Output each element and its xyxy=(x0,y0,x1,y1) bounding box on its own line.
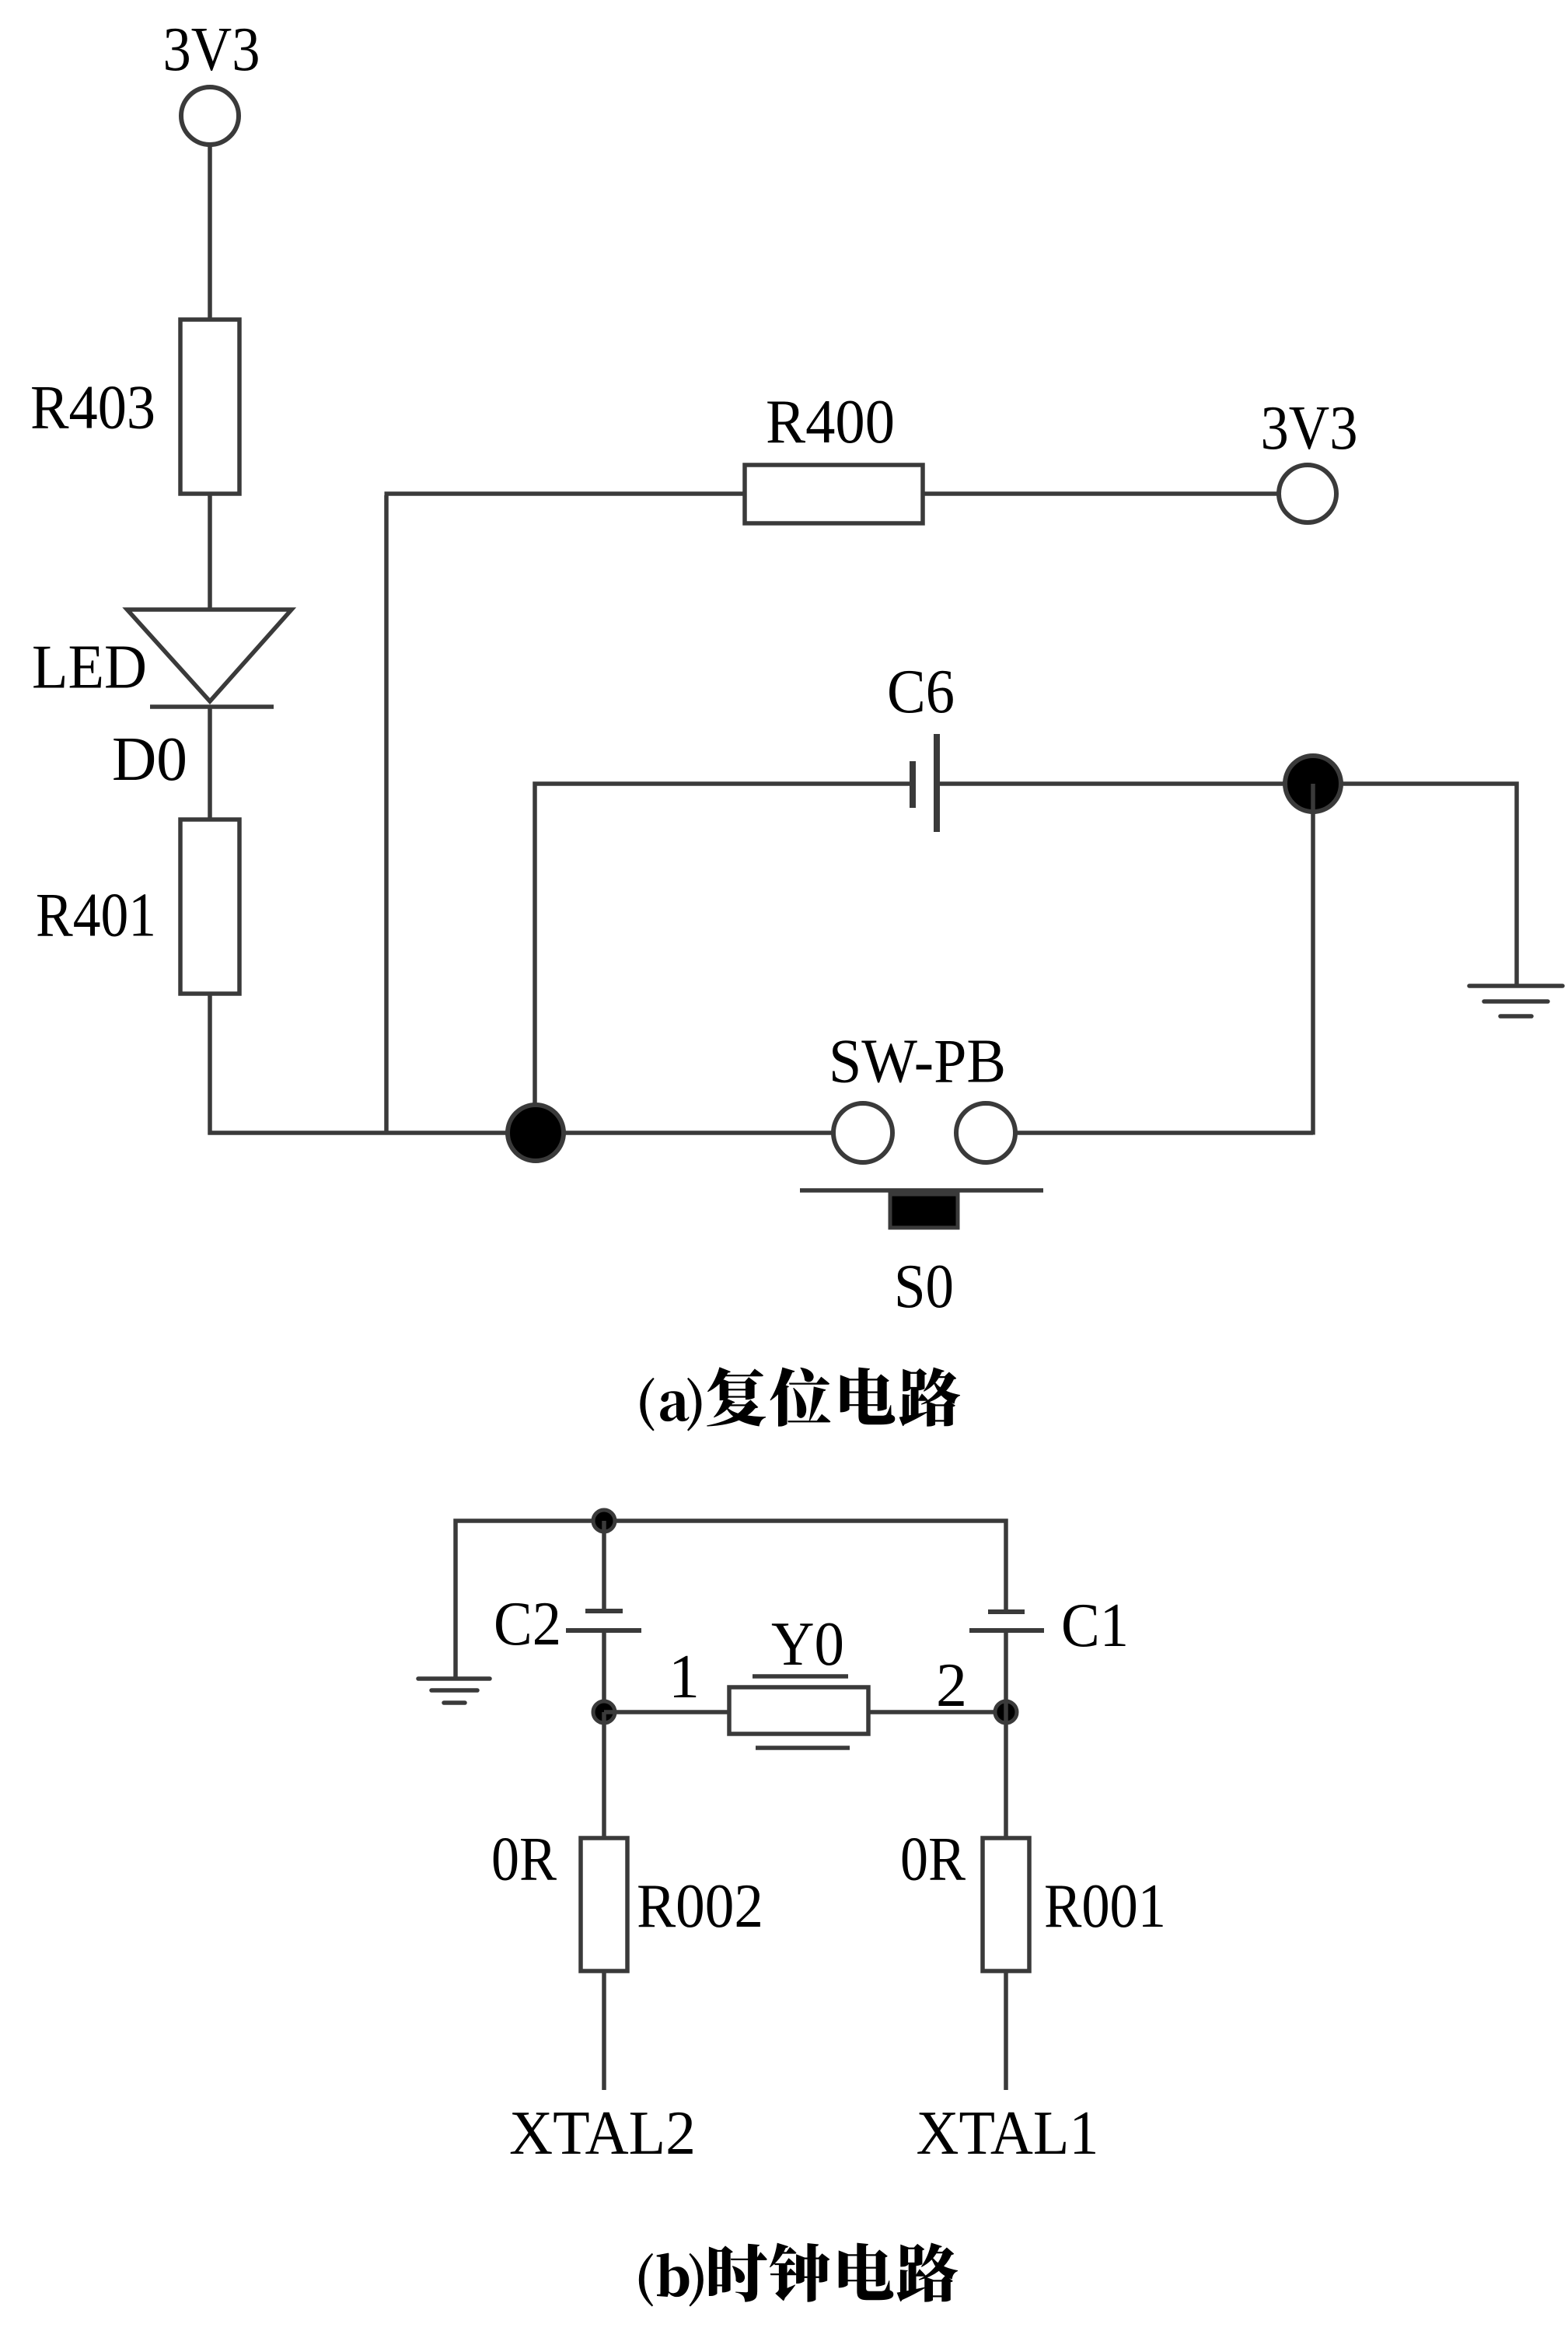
wire R002 to XTAL2 xyxy=(602,1971,606,2090)
caption (a) glyph ')' xyxy=(687,1378,701,1431)
caption (b) glyph 'b' xyxy=(657,2253,690,2297)
wire 3V3 to R403 xyxy=(208,145,212,320)
ground symbol (b) bar3 xyxy=(444,1700,465,1705)
svg-text:C6: C6 xyxy=(887,658,955,726)
svg-text:R401: R401 xyxy=(36,882,156,950)
svg-text:3V3: 3V3 xyxy=(1261,394,1358,463)
caption (b) glyph '钟' xyxy=(770,2243,829,2302)
caption (b) glyph '路' xyxy=(897,2243,958,2302)
svg-text:3V3: 3V3 xyxy=(163,16,260,84)
ground symbol (a) bar2 xyxy=(1484,999,1548,1004)
capacitor C1 bottom plate xyxy=(969,1628,1044,1633)
svg-text:1: 1 xyxy=(669,1643,700,1711)
svg-text:XTAL1: XTAL1 xyxy=(917,2099,1099,2168)
svg-text:D0: D0 xyxy=(112,725,187,794)
crystal Y0 bottom electrode line xyxy=(756,1746,850,1750)
svg-text:2: 2 xyxy=(936,1651,967,1720)
caption (a) glyph '位' xyxy=(770,1368,830,1427)
caption (a) glyph '路' xyxy=(899,1368,960,1427)
caption (b) glyph ')' xyxy=(689,2253,703,2307)
power terminal 3V3 right circle xyxy=(1279,465,1336,522)
wire Y0 to node 2 xyxy=(868,1710,1006,1714)
junction dot node 2 xyxy=(995,1701,1017,1723)
caption (b) glyph '电' xyxy=(839,2243,894,2301)
junction dot top rail xyxy=(593,1510,615,1532)
junction dot left on bottom rail xyxy=(508,1105,564,1161)
ground symbol (b) bar1 xyxy=(418,1676,490,1681)
svg-text:S0: S0 xyxy=(894,1253,954,1321)
junction dot node 1 xyxy=(593,1701,615,1723)
svg-text:R400: R400 xyxy=(766,388,895,456)
switch S0 right contact circle xyxy=(956,1103,1015,1162)
caption (a) glyph '(' xyxy=(640,1378,654,1431)
caption (a) glyph '复' xyxy=(707,1367,766,1426)
wire C2 to node 1 xyxy=(602,1633,606,1712)
svg-text:R002: R002 xyxy=(637,1872,763,1941)
power terminal 3V3 top-left circle xyxy=(181,87,239,145)
wire junction down to switch right xyxy=(1015,784,1313,1135)
svg-text:SW-PB: SW-PB xyxy=(829,1028,1006,1096)
caption (b) glyph '(' xyxy=(639,2253,653,2307)
caption (a) glyph '电' xyxy=(840,1368,896,1425)
svg-text:C1: C1 xyxy=(1061,1592,1129,1660)
wire R400 left horizontal xyxy=(385,491,746,496)
svg-text:R001: R001 xyxy=(1044,1872,1166,1941)
capacitor C2 top plate xyxy=(585,1609,623,1613)
wire R403 to LED xyxy=(208,494,212,610)
ground symbol (a) bar3 xyxy=(1500,1014,1531,1019)
wire LED to R401 xyxy=(208,707,212,820)
caption (a) glyph 'a' xyxy=(660,1391,690,1421)
LED D0 triangle xyxy=(127,610,292,701)
resistor R400 body xyxy=(745,465,923,523)
LED D0 cathode bar xyxy=(150,704,274,709)
switch S0 left contact circle xyxy=(833,1103,892,1162)
resistor R403 body xyxy=(180,320,239,494)
svg-text:C2: C2 xyxy=(494,1590,561,1658)
crystal Y0 body xyxy=(729,1687,868,1734)
svg-text:0R: 0R xyxy=(900,1826,966,1894)
svg-text:Y0: Y0 xyxy=(771,1610,844,1679)
ground symbol (b) bar2 xyxy=(431,1688,477,1693)
switch S0 actuator bar xyxy=(800,1188,1043,1193)
wire node 1 to Y0 xyxy=(604,1710,729,1714)
wire C6 left with corner down to junction xyxy=(535,784,910,1133)
wire R001 to XTAL1 xyxy=(1004,1971,1008,2090)
capacitor C1 top plate xyxy=(988,1609,1025,1614)
switch S0 button body xyxy=(890,1194,958,1228)
wire top rail to C2 top plate xyxy=(602,1521,606,1609)
svg-text:R403: R403 xyxy=(30,374,155,442)
capacitor C6 left plate xyxy=(910,761,916,808)
junction dot right xyxy=(1285,756,1341,812)
wire node 1 down to R002 xyxy=(602,1712,606,1838)
caption (b) glyph '时' xyxy=(709,2244,767,2302)
wire C6 right to ground corner xyxy=(940,784,1517,986)
wire top rail from ground stem to C1 xyxy=(456,1521,1006,1679)
wire node 2 down to R001 xyxy=(1004,1712,1008,1838)
wire R400 to 3V3 right xyxy=(923,491,1279,496)
resistor R001 body xyxy=(983,1838,1029,1971)
capacitor C2 bottom plate xyxy=(566,1628,641,1633)
svg-text:LED: LED xyxy=(32,634,147,702)
ground symbol (a) bar1 xyxy=(1469,984,1563,988)
wire R401 down and bottom rail to switch xyxy=(208,994,834,1135)
wire vertical branch from R400 left to bottom rail xyxy=(384,495,389,1133)
crystal Y0 top electrode line xyxy=(753,1674,848,1679)
svg-text:XTAL2: XTAL2 xyxy=(509,2099,696,2168)
resistor R002 body xyxy=(581,1838,627,1971)
wire C1 bottom plate to node 2 xyxy=(1004,1633,1008,1712)
resistor R401 body xyxy=(180,820,239,994)
svg-text:0R: 0R xyxy=(491,1826,557,1894)
capacitor C6 right plate xyxy=(934,734,940,832)
